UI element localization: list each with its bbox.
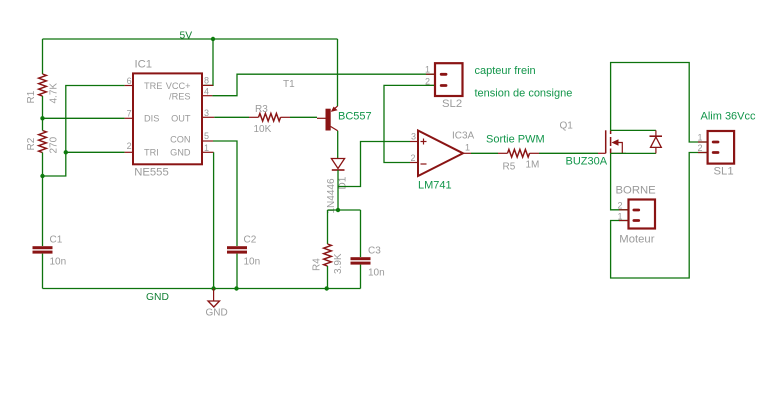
junction node PWM filter <box>336 208 340 212</box>
pin 4 /RES <box>202 95 213 97</box>
svg-text:CON: CON <box>170 135 190 145</box>
wire 5V to T1 emitter <box>337 39 339 106</box>
wire source connect <box>611 152 656 154</box>
svg-text:2: 2 <box>410 153 415 163</box>
svg-text:3.9K: 3.9K <box>333 253 344 274</box>
svg-text:C2: C2 <box>244 235 257 246</box>
svg-text:2: 2 <box>617 201 622 211</box>
wire CON to C2 <box>213 141 237 246</box>
connector SL1 <box>697 131 734 178</box>
wire C3 top <box>360 210 362 257</box>
capacitor C2 <box>227 235 260 268</box>
svg-text:1: 1 <box>425 65 430 75</box>
svg-text:VCC+: VCC+ <box>166 81 191 91</box>
wire R4 top <box>327 210 329 244</box>
wire DIS net <box>43 117 125 119</box>
svg-text:capteur frein: capteur frein <box>475 65 536 77</box>
wire SL2 pin2 to op-amp <box>384 85 434 162</box>
junction GND symbol <box>211 286 215 290</box>
svg-text:Sortie PWM: Sortie PWM <box>486 134 545 146</box>
wire 5V rail <box>43 38 338 40</box>
wire GND rail <box>43 288 361 290</box>
wire BORNE pin1 to SL1 pin2 loop <box>611 153 707 279</box>
wire T1 collector to D1 <box>337 131 339 159</box>
wire left rail to R1 <box>42 39 44 74</box>
wire op-amp out to R5 <box>471 152 498 154</box>
svg-text:10n: 10n <box>368 268 385 279</box>
pin 8 VCC+ <box>202 84 213 86</box>
pin stub SL2 pin1 <box>426 73 435 75</box>
svg-text:TRE: TRE <box>144 81 162 91</box>
resistor R2 <box>39 131 47 153</box>
body diode of Q1 <box>650 130 663 153</box>
junction node TRE/TRI <box>40 174 44 178</box>
svg-text:GND: GND <box>206 308 228 319</box>
svg-text:6: 6 <box>127 76 132 86</box>
svg-text:SL2: SL2 <box>442 98 462 110</box>
svg-text:R2: R2 <box>26 137 37 150</box>
svg-text:1N4446: 1N4446 <box>326 178 337 213</box>
junction C2 on GND rail <box>234 286 238 290</box>
wire C1 top <box>42 176 44 246</box>
svg-text:270: 270 <box>49 136 60 153</box>
svg-text:1: 1 <box>204 143 209 153</box>
svg-text:4: 4 <box>204 86 209 96</box>
junction TRI branch <box>64 150 68 154</box>
svg-text:BORNE: BORNE <box>616 185 657 197</box>
svg-text:Q1: Q1 <box>560 121 574 132</box>
pin stub SL1 pin1 <box>698 141 708 143</box>
resistor R5 <box>498 149 539 172</box>
wire node to op-amp input <box>338 142 410 187</box>
resistor R3 <box>249 104 290 135</box>
svg-text:OUT: OUT <box>171 113 191 123</box>
svg-text:tension de consigne: tension de consigne <box>475 88 573 100</box>
svg-text:GND: GND <box>170 147 191 157</box>
pin 3 OUT <box>202 116 215 118</box>
wire R4 bottom <box>327 266 329 289</box>
wire D1 to node <box>337 170 339 210</box>
wire R3 to T1 base <box>290 116 317 118</box>
diode D1 <box>326 159 349 214</box>
svg-text:GND: GND <box>146 292 169 303</box>
svg-text:1: 1 <box>465 143 470 153</box>
svg-text:R4: R4 <box>312 258 323 271</box>
svg-text:2: 2 <box>697 143 702 153</box>
wire OUT to R3 <box>214 116 249 118</box>
junction R4 on GND rail <box>325 286 329 290</box>
svg-text:7: 7 <box>127 108 132 118</box>
svg-text:5V: 5V <box>180 31 193 42</box>
svg-text:DIS: DIS <box>144 113 159 123</box>
capacitor C3 <box>351 246 385 279</box>
svg-text:NE555: NE555 <box>134 166 169 178</box>
svg-text:IC1: IC1 <box>135 59 153 71</box>
pin stub BORNE pin1 <box>619 220 629 222</box>
svg-text:8: 8 <box>204 76 209 86</box>
wire C3 bottom <box>360 265 362 289</box>
svg-text:R3: R3 <box>255 104 268 115</box>
wire TRI branch <box>66 151 125 153</box>
pin stub SL2 pin2 <box>426 84 435 86</box>
svg-text:TRI: TRI <box>144 147 159 157</box>
svg-text:D1: D1 <box>338 176 349 189</box>
svg-text:1M: 1M <box>526 160 540 171</box>
pin stub SL1 pin2 <box>698 152 708 154</box>
pin 1 GND <box>202 151 214 153</box>
capacitor C1 <box>33 235 67 268</box>
transistor Q1 BUZ30A <box>560 121 627 168</box>
wire drain loop to SL1 pin1 <box>611 63 707 143</box>
connector SL2 <box>425 63 463 110</box>
wire filter node horizontal <box>328 209 361 211</box>
wire GND pin1 drop <box>213 152 215 288</box>
svg-text:2: 2 <box>127 141 132 151</box>
svg-text:T1: T1 <box>283 79 295 90</box>
wire source down to BORNE pin2 <box>611 153 628 209</box>
svg-text:10K: 10K <box>254 124 272 135</box>
junction node DIS <box>40 116 44 120</box>
resistor R4 <box>312 244 345 274</box>
svg-text:3: 3 <box>204 108 209 118</box>
ground symbol <box>206 289 228 319</box>
connector BORNE Moteur <box>616 185 657 246</box>
pin 6 TRE <box>125 85 133 87</box>
transistor T1 BC557 <box>283 79 372 131</box>
svg-text:BUZ30A: BUZ30A <box>566 156 608 168</box>
svg-text:Moteur: Moteur <box>619 234 654 246</box>
svg-text:Alim 36Vcc: Alim 36Vcc <box>701 111 757 123</box>
wire R5 to Q1 gate <box>539 152 598 154</box>
pin 2 TRI <box>125 151 133 153</box>
op-amp IC3A LM741 <box>410 131 475 192</box>
IC1 NE555 box <box>133 59 202 179</box>
wire R1 to junction <box>42 96 44 118</box>
pin 5 CON <box>202 140 213 142</box>
svg-text:R1: R1 <box>26 90 37 103</box>
wire C2 bottom <box>236 254 238 289</box>
wire drain connect <box>611 129 656 131</box>
wire TRE/TRI net <box>43 86 125 177</box>
svg-text:3: 3 <box>411 132 416 142</box>
pin stub BORNE pin2 <box>619 209 629 211</box>
svg-text:SL1: SL1 <box>714 166 734 178</box>
svg-text:C3: C3 <box>368 246 381 257</box>
junction 5V rail <box>211 37 215 41</box>
svg-text:LM741: LM741 <box>418 180 452 192</box>
resistor R1 <box>39 74 47 96</box>
svg-text:5: 5 <box>204 131 209 141</box>
svg-text:R5: R5 <box>503 162 516 173</box>
wire R2 bottom to junction <box>42 153 44 177</box>
wire R2 top <box>42 118 44 130</box>
wire 5V to pin8 <box>204 39 214 85</box>
svg-text:1: 1 <box>697 133 702 143</box>
svg-text:10n: 10n <box>244 257 261 268</box>
svg-text:BC557: BC557 <box>338 111 372 123</box>
wire /RES to SL2 pin1 <box>212 74 434 96</box>
svg-text:C1: C1 <box>50 235 63 246</box>
svg-text:10n: 10n <box>50 257 67 268</box>
wire C1 bottom <box>42 254 44 289</box>
svg-text:4.7K: 4.7K <box>49 83 60 104</box>
svg-text:1: 1 <box>617 212 622 222</box>
svg-text:/RES: /RES <box>169 91 190 101</box>
svg-text:IC3A: IC3A <box>452 131 475 142</box>
pin 7 DIS <box>125 117 133 119</box>
